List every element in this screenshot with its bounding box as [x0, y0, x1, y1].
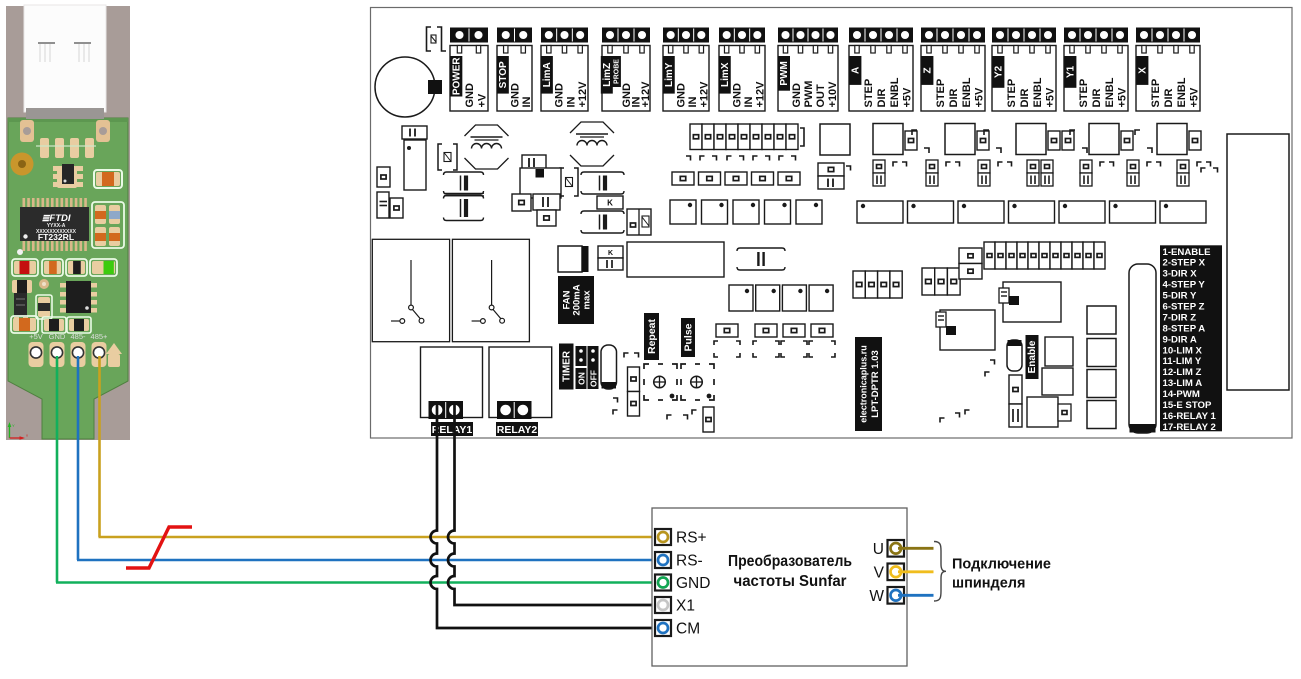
svg-text:ENBL: ENBL — [961, 77, 973, 107]
svg-text:X1: X1 — [676, 598, 695, 615]
svg-text:LimZ: LimZ — [602, 63, 613, 87]
svg-text:GND: GND — [464, 83, 476, 108]
svg-text:12-LIM Z: 12-LIM Z — [1163, 367, 1202, 378]
svg-text:частоты Sunfar: частоты Sunfar — [734, 573, 847, 590]
svg-text:9-DIR A: 9-DIR A — [1163, 334, 1197, 345]
svg-text:A: A — [850, 67, 861, 74]
svg-text:485+: 485+ — [91, 332, 109, 341]
svg-text:+12V: +12V — [754, 81, 766, 108]
svg-text:ENBL: ENBL — [1104, 77, 1116, 107]
svg-text:Y: Y — [12, 423, 15, 428]
svg-text:DIR: DIR — [876, 89, 888, 108]
svg-text:PROBE: PROBE — [613, 59, 620, 84]
svg-text:OUT: OUT — [815, 84, 827, 108]
svg-text:Repeat: Repeat — [646, 318, 658, 354]
svg-text:+5V: +5V — [1045, 87, 1057, 108]
svg-text:+5V: +5V — [974, 87, 986, 108]
svg-text:3-DIR X: 3-DIR X — [1163, 269, 1198, 280]
svg-text:+V: +V — [477, 93, 489, 107]
svg-text:IN: IN — [743, 96, 755, 107]
svg-text:Z: Z — [922, 67, 933, 73]
svg-text:+12V: +12V — [577, 81, 589, 108]
svg-text:IN: IN — [565, 96, 577, 107]
svg-text:GND: GND — [731, 83, 743, 108]
svg-text:ENBL: ENBL — [1176, 77, 1188, 107]
svg-text:+12V: +12V — [698, 81, 710, 108]
svg-text:X: X — [1137, 67, 1148, 74]
svg-text:GND: GND — [791, 83, 803, 108]
svg-text:LimX: LimX — [720, 62, 731, 87]
svg-text:STEP: STEP — [1078, 79, 1090, 108]
svg-text:GND: GND — [675, 83, 687, 108]
svg-text:4-STEP Y: 4-STEP Y — [1163, 280, 1206, 291]
svg-text:10-LIM X: 10-LIM X — [1163, 345, 1203, 356]
svg-text:+5V: +5V — [902, 87, 914, 108]
svg-text:5-DIR Y: 5-DIR Y — [1163, 291, 1198, 302]
svg-text:K: K — [608, 250, 613, 257]
svg-text:DIR: DIR — [1163, 89, 1175, 108]
svg-text:Преобразователь: Преобразователь — [728, 553, 852, 570]
svg-text:Pulse: Pulse — [683, 323, 695, 351]
svg-text:electronicaplus.ru: electronicaplus.ru — [859, 345, 869, 423]
svg-text:TIMER: TIMER — [561, 350, 572, 382]
svg-text:K: K — [607, 199, 613, 208]
svg-text:PWM: PWM — [779, 61, 790, 85]
svg-text:шпинделя: шпинделя — [952, 576, 1025, 592]
svg-text:GND: GND — [554, 83, 566, 108]
svg-text:Enable: Enable — [1027, 340, 1038, 373]
svg-text:1-ENABLE: 1-ENABLE — [1163, 247, 1212, 258]
svg-text:max: max — [582, 290, 593, 310]
svg-text:ENBL: ENBL — [889, 77, 901, 107]
svg-text:7-DIR Z: 7-DIR Z — [1163, 312, 1197, 323]
svg-text:14-PWM: 14-PWM — [1163, 389, 1200, 400]
svg-text:6-STEP Z: 6-STEP Z — [1163, 302, 1205, 313]
svg-text:LimY: LimY — [664, 62, 675, 87]
svg-text:Y2: Y2 — [993, 65, 1004, 78]
svg-text:15-E STOP: 15-E STOP — [1163, 400, 1212, 411]
svg-text:2-STEP X: 2-STEP X — [1163, 258, 1206, 269]
svg-text:ON: ON — [577, 372, 587, 385]
svg-text:GND: GND — [510, 83, 522, 108]
svg-text:POWER: POWER — [451, 57, 462, 96]
svg-text:CM: CM — [676, 621, 700, 638]
svg-text:IN: IN — [521, 96, 533, 107]
svg-text:+5V: +5V — [1189, 87, 1201, 108]
svg-text:LPT-DPTR 1.03: LPT-DPTR 1.03 — [870, 350, 881, 418]
svg-text:U: U — [873, 541, 884, 558]
svg-text:STEP: STEP — [935, 79, 947, 108]
svg-text:16-RELAY 1: 16-RELAY 1 — [1163, 411, 1217, 422]
svg-text:STEP: STEP — [1150, 79, 1162, 108]
svg-text:IN: IN — [687, 96, 699, 107]
svg-text:17-RELAY 2: 17-RELAY 2 — [1163, 422, 1216, 433]
svg-text:DIR: DIR — [948, 89, 960, 108]
svg-text:+5V: +5V — [1117, 87, 1129, 108]
svg-text:RELAY2: RELAY2 — [497, 424, 538, 436]
svg-text:GND: GND — [49, 332, 66, 341]
svg-text:+12V: +12V — [640, 81, 652, 108]
svg-text:PWM: PWM — [803, 81, 815, 108]
svg-text:11-LIM Y: 11-LIM Y — [1163, 356, 1202, 367]
svg-text:STEP: STEP — [1006, 79, 1018, 108]
svg-text:485-: 485- — [70, 332, 86, 341]
svg-text:13-LIM A: 13-LIM A — [1163, 378, 1203, 389]
svg-text:RS-: RS- — [676, 553, 703, 570]
svg-text:DIR: DIR — [1019, 89, 1031, 108]
svg-text:GND: GND — [676, 575, 710, 592]
svg-text:x: x — [26, 433, 28, 438]
svg-text:RS+: RS+ — [676, 530, 707, 547]
svg-text:STOP: STOP — [498, 61, 509, 88]
svg-text:STEP: STEP — [863, 79, 875, 108]
svg-text:DIR: DIR — [1091, 89, 1103, 108]
svg-text:ENBL: ENBL — [1032, 77, 1044, 107]
svg-text:Подключение: Подключение — [952, 557, 1051, 573]
svg-text:LimA: LimA — [542, 62, 553, 87]
svg-text:W: W — [869, 588, 884, 605]
svg-text:FT232RL: FT232RL — [38, 232, 74, 242]
svg-text:V: V — [874, 564, 885, 581]
svg-text:+10V: +10V — [827, 81, 839, 108]
svg-text:+5V: +5V — [29, 332, 43, 341]
svg-text:OFF: OFF — [589, 370, 599, 387]
svg-text:8-STEP A: 8-STEP A — [1163, 323, 1206, 334]
svg-text:Y1: Y1 — [1065, 65, 1076, 78]
